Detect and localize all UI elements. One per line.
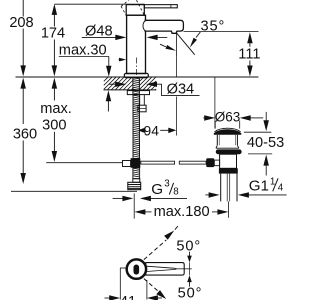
G3/8 dimension arrows xyxy=(113,196,187,202)
svg-text:208: 208 xyxy=(9,15,33,31)
counter hatching right xyxy=(140,77,156,89)
max.30 down arrow at counter top xyxy=(106,66,112,77)
svg-text:41: 41 xyxy=(120,294,136,300)
fixing stud xyxy=(140,95,145,106)
swivel range upper dashed ray xyxy=(144,226,178,260)
Ø63 dimension xyxy=(203,115,263,128)
centerline xyxy=(135,58,137,78)
flexible hose lower xyxy=(133,168,140,179)
G1 1/4 dimension arrows xyxy=(205,192,286,198)
label G1 1/4 xyxy=(249,176,284,194)
dimension 41 arrows xyxy=(105,295,163,300)
dimension max.180 xyxy=(134,209,228,215)
waste axis extension line xyxy=(227,202,229,218)
Ø34 dimension arrows xyxy=(109,82,200,96)
dimension 41 extension lines xyxy=(120,268,147,300)
extension tick for 360 bottom xyxy=(11,190,137,192)
svg-text:50°: 50° xyxy=(178,286,203,300)
35 degree outlet angle detail xyxy=(160,32,200,56)
svg-text:111: 111 xyxy=(238,47,260,63)
pop-up waste dome (dark top) xyxy=(214,129,242,134)
waste seal ring (black) xyxy=(216,149,242,154)
svg-text:max.180: max.180 xyxy=(154,204,210,220)
svg-text:Ø48: Ø48 xyxy=(85,23,113,39)
hose collar xyxy=(133,179,140,183)
shank thread texture xyxy=(133,78,139,94)
top view: lever taper inside bar xyxy=(147,266,177,271)
dimension 40-53 xyxy=(244,112,272,176)
swivel range lower dashed ray xyxy=(144,279,166,299)
lever cartridge xyxy=(126,5,144,16)
max.30 up arrow at counter bottom xyxy=(106,90,112,111)
svg-text:300: 300 xyxy=(42,118,66,134)
Ø48 right arrow xyxy=(147,35,168,41)
spout xyxy=(144,20,184,33)
pop-up rod horizontal line xyxy=(46,162,122,164)
top view: body circle xyxy=(127,259,146,278)
threaded shank through counter xyxy=(133,77,140,94)
svg-text:3: 3 xyxy=(164,178,170,189)
dimension 360 vertical line xyxy=(20,78,26,184)
svg-text:Ø63: Ø63 xyxy=(215,109,241,124)
dimension 111 xyxy=(247,32,253,76)
svg-text:94: 94 xyxy=(144,123,160,138)
waste lower body xyxy=(220,154,237,168)
faucet body xyxy=(127,15,146,73)
top view: lever boss pill xyxy=(134,265,140,275)
svg-text:4: 4 xyxy=(278,183,284,194)
spout root arc xyxy=(143,21,145,31)
svg-text:8: 8 xyxy=(173,187,179,198)
lever rod xyxy=(144,5,177,8)
top view: centerline to angle dimension xyxy=(177,268,192,270)
rod knob (dark) xyxy=(206,158,214,167)
svg-text:40-53: 40-53 xyxy=(247,135,284,151)
svg-text:174: 174 xyxy=(41,25,65,41)
dimension 174 vertical line xyxy=(52,4,58,77)
rod clevis at hose xyxy=(131,158,141,168)
spout axis extension line lower xyxy=(175,56,177,135)
svg-text:G1: G1 xyxy=(249,177,269,194)
base flange xyxy=(124,73,148,77)
dimension 208 vertical line xyxy=(20,0,26,76)
knurled nut xyxy=(219,168,238,173)
svg-text:Ø34: Ø34 xyxy=(167,82,195,98)
waste upper body xyxy=(216,135,239,149)
svg-text:360: 360 xyxy=(13,127,37,143)
counter hatching left xyxy=(104,77,133,89)
extension line top (174 to lever rod) xyxy=(54,3,144,5)
angle dimension vertical arrows at bar xyxy=(189,252,191,287)
flexible hose upper xyxy=(133,95,140,159)
lever tilted position (dashed) xyxy=(121,0,144,15)
small arrow at body base left xyxy=(119,58,126,62)
dimension max.300 vertical line xyxy=(52,78,58,162)
extension line from aerator to 111 xyxy=(184,31,259,33)
svg-text:35°: 35° xyxy=(201,19,226,35)
hose end extension line xyxy=(133,193,135,218)
horseshoe washer xyxy=(127,91,149,95)
svg-text:max.: max. xyxy=(40,101,72,117)
stud nut xyxy=(138,105,146,112)
label G3/8 xyxy=(151,178,179,198)
rod stem xyxy=(214,160,219,166)
counter bottom line xyxy=(104,89,157,91)
svg-text:G: G xyxy=(151,181,163,198)
waste flange extension line from counter xyxy=(214,77,216,128)
waste tail pipe xyxy=(221,174,237,202)
G3/8 connector nut xyxy=(128,182,141,189)
svg-text:50°: 50° xyxy=(176,238,201,254)
counter top line xyxy=(16,76,259,78)
dimension 94 xyxy=(137,128,176,134)
top view: spout/lever bar xyxy=(146,263,184,276)
